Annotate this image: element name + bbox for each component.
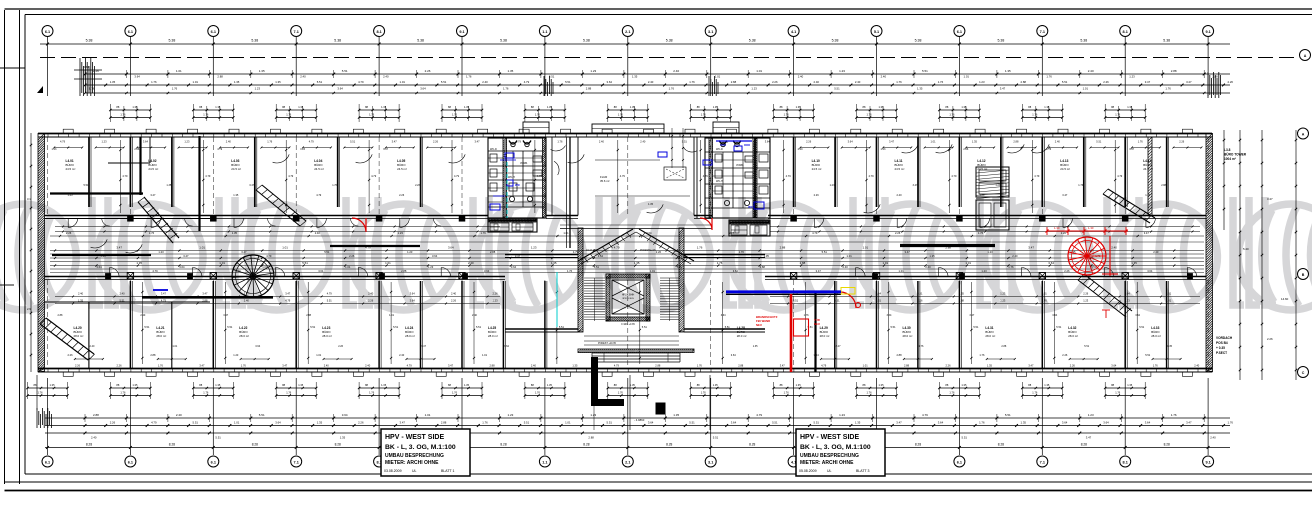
svg-text:03.08.2009: 03.08.2009 <box>384 469 402 473</box>
svg-text:8.1: 8.1 <box>1123 30 1128 34</box>
svg-text:1.76: 1.76 <box>286 113 292 117</box>
svg-text:1.35: 1.35 <box>961 383 967 387</box>
svg-text:1.01: 1.01 <box>650 269 656 273</box>
svg-text:2.40: 2.40 <box>482 80 488 84</box>
svg-text:MIETER: ARCHI OHNE: MIETER: ARCHI OHNE <box>385 460 439 466</box>
svg-text:1.76: 1.76 <box>120 391 126 395</box>
svg-text:4.79: 4.79 <box>288 174 294 178</box>
svg-text:5.38: 5.38 <box>915 39 922 43</box>
svg-text:28.0 m²: 28.0 m² <box>1068 334 1078 338</box>
entrance marker thick L <box>595 357 625 403</box>
svg-text:3.64: 3.64 <box>1062 420 1068 424</box>
svg-text:3.64: 3.64 <box>275 420 281 424</box>
svg-text:2.88: 2.88 <box>729 231 735 235</box>
column symbols lower corridor wall <box>127 273 1128 279</box>
svg-text:5.51: 5.51 <box>476 325 482 329</box>
svg-text:1.01: 1.01 <box>316 353 322 357</box>
svg-text:1.35: 1.35 <box>634 261 640 265</box>
svg-text:1.01: 1.01 <box>172 345 177 348</box>
svg-text:2.40: 2.40 <box>90 345 95 348</box>
svg-text:8.1: 8.1 <box>376 30 381 34</box>
red stem beside spiral <box>1102 236 1118 318</box>
sheet bottom edge double line <box>5 490 1312 492</box>
svg-text:1.76: 1.76 <box>1046 148 1051 151</box>
svg-text:2.88: 2.88 <box>780 246 786 250</box>
bottom wall pilasters <box>63 372 1192 376</box>
svg-text:1.35: 1.35 <box>796 105 802 109</box>
svg-text:+ 0.35: + 0.35 <box>1216 346 1225 350</box>
svg-text:1004 m²: 1004 m² <box>1224 157 1236 161</box>
svg-text:8.28: 8.28 <box>252 442 258 446</box>
svg-text:24.5 m²: 24.5 m² <box>895 167 905 171</box>
building outer wall bottom <box>38 369 1212 373</box>
svg-text:2.40: 2.40 <box>897 193 903 197</box>
svg-text:5.51: 5.51 <box>524 420 530 424</box>
central stair core side walls <box>578 228 684 332</box>
svg-text:5.51: 5.51 <box>973 325 979 329</box>
lower room band dimension chains <box>55 292 1200 305</box>
svg-text:2.40: 2.40 <box>814 80 820 84</box>
svg-text:5.38: 5.38 <box>1080 39 1087 43</box>
svg-text:1.01: 1.01 <box>863 246 869 250</box>
svg-text:WC: WC <box>748 205 754 209</box>
svg-text:3.64: 3.64 <box>83 65 89 69</box>
corridor wall lower <box>45 277 1207 280</box>
svg-text:5.51: 5.51 <box>891 325 897 329</box>
svg-text:1.23: 1.23 <box>68 193 74 197</box>
svg-text:UL: UL <box>827 469 832 473</box>
svg-text:1.76: 1.76 <box>949 391 955 395</box>
svg-text:3.47: 3.47 <box>223 314 228 317</box>
svg-text:5.51: 5.51 <box>1062 80 1068 84</box>
svg-text:1.76: 1.76 <box>1032 113 1038 117</box>
svg-text:1.35: 1.35 <box>298 105 304 109</box>
svg-text:1.35: 1.35 <box>961 105 967 109</box>
svg-text:2.88: 2.88 <box>401 269 407 273</box>
svg-text:3.64: 3.64 <box>1052 314 1057 317</box>
svg-text:2.88: 2.88 <box>1001 345 1006 348</box>
svg-text:1.01: 1.01 <box>965 261 971 265</box>
svg-text:BLATT 1: BLATT 1 <box>441 469 455 473</box>
svg-text:P.SECT: P.SECT <box>1216 351 1227 355</box>
svg-text:4.79: 4.79 <box>151 420 157 424</box>
svg-text:1.76: 1.76 <box>697 364 703 368</box>
svg-text:24.5 m²: 24.5 m² <box>397 167 407 171</box>
svg-text:4.79: 4.79 <box>786 174 792 178</box>
svg-text:5.51: 5.51 <box>682 140 688 144</box>
svg-text:5.51: 5.51 <box>227 325 233 329</box>
svg-text:4.79: 4.79 <box>614 246 620 250</box>
svg-text:5.51: 5.51 <box>350 140 356 144</box>
svg-text:3.64: 3.64 <box>511 265 517 269</box>
svg-text:1.76: 1.76 <box>618 391 624 395</box>
svg-text:1.76: 1.76 <box>120 113 126 117</box>
svg-text:3.47: 3.47 <box>202 292 208 296</box>
svg-text:2.40: 2.40 <box>599 140 605 144</box>
svg-text:28.0 m²: 28.0 m² <box>239 334 249 338</box>
east annotation text lower <box>1216 336 1233 355</box>
svg-text:2.40: 2.40 <box>78 292 84 296</box>
blue marks top centre <box>658 152 712 165</box>
svg-text:28.0 m²: 28.0 m² <box>405 334 415 338</box>
misc stems below building <box>37 375 710 430</box>
svg-text:2.40: 2.40 <box>925 265 931 269</box>
svg-text:3.47: 3.47 <box>1062 193 1068 197</box>
svg-text:5.1: 5.1 <box>874 30 879 34</box>
svg-text:35.6 m²: 35.6 m² <box>600 179 610 183</box>
svg-text:1.35: 1.35 <box>464 383 470 387</box>
west diagonal stair <box>256 185 306 226</box>
svg-text:2.88: 2.88 <box>760 265 766 269</box>
svg-text:3.64: 3.64 <box>410 292 416 296</box>
svg-text:3.47: 3.47 <box>1086 436 1092 440</box>
top-left dimension terminator cluster <box>74 58 102 96</box>
svg-text:1.23: 1.23 <box>751 87 757 91</box>
svg-text:7.1: 7.1 <box>1040 460 1045 464</box>
svg-text:2.40: 2.40 <box>1055 140 1061 144</box>
svg-text:3.47: 3.47 <box>1145 80 1151 84</box>
svg-text:7.1: 7.1 <box>294 30 299 34</box>
svg-text:5.38: 5.38 <box>1163 39 1170 43</box>
svg-text:3.64: 3.64 <box>484 269 490 273</box>
svg-text:3.47: 3.47 <box>896 420 902 424</box>
svg-text:1.76: 1.76 <box>203 391 209 395</box>
red escape route line <box>790 294 793 372</box>
svg-text:1.76: 1.76 <box>369 113 375 117</box>
svg-text:L3.8: L3.8 <box>1224 148 1231 152</box>
stair flight east treads <box>660 278 679 321</box>
svg-text:2.26: 2.26 <box>368 299 374 303</box>
svg-text:POS B4: POS B4 <box>1216 341 1228 345</box>
svg-text:1.01: 1.01 <box>715 75 721 79</box>
svg-text:6.1: 6.1 <box>211 30 216 34</box>
svg-text:BK - L, 3. OG, M.1:100: BK - L, 3. OG, M.1:100 <box>800 444 871 451</box>
svg-text:4.79: 4.79 <box>454 174 460 178</box>
svg-text:4.79: 4.79 <box>285 299 291 303</box>
svg-text:2.88: 2.88 <box>490 364 496 368</box>
svg-text:1.35: 1.35 <box>632 75 638 79</box>
svg-text:5.38: 5.38 <box>334 39 341 43</box>
svg-text:28.0 m²: 28.0 m² <box>488 334 498 338</box>
svg-text:1.76: 1.76 <box>919 345 924 348</box>
svg-text:1.35: 1.35 <box>340 436 346 440</box>
svg-text:1.23: 1.23 <box>881 148 886 151</box>
room vertical dimension stems upper <box>119 140 1123 213</box>
svg-text:3.47: 3.47 <box>905 250 911 254</box>
svg-text:2.26: 2.26 <box>963 148 968 151</box>
blue fixtures west wc <box>490 153 521 210</box>
svg-text:2.40: 2.40 <box>1012 254 1018 258</box>
upper room partition walls <box>89 137 1169 207</box>
svg-text:2.40: 2.40 <box>176 413 182 417</box>
svg-text:1.76: 1.76 <box>979 353 985 357</box>
svg-text:2.88: 2.88 <box>897 353 903 357</box>
svg-text:2.40: 2.40 <box>881 75 887 79</box>
svg-text:2.26: 2.26 <box>117 364 123 368</box>
svg-text:2.40: 2.40 <box>673 69 679 73</box>
svg-text:5.51: 5.51 <box>565 80 571 84</box>
svg-text:24.5 m²: 24.5 m² <box>231 167 241 171</box>
svg-text:1.23: 1.23 <box>102 140 108 144</box>
svg-text:B: B <box>1302 273 1305 277</box>
svg-text:2.88: 2.88 <box>1021 80 1027 84</box>
svg-text:3.47: 3.47 <box>241 250 247 254</box>
svg-text:3.64: 3.64 <box>143 140 149 144</box>
svg-text:1.76: 1.76 <box>1008 265 1014 269</box>
svg-text:28.0 m²: 28.0 m² <box>74 334 84 338</box>
blue mark west corridor <box>153 289 168 291</box>
svg-text:1.35: 1.35 <box>1127 383 1133 387</box>
svg-text:5.51: 5.51 <box>327 299 333 303</box>
svg-text:C: C <box>1302 371 1305 375</box>
svg-text:1.35: 1.35 <box>136 261 142 265</box>
svg-text:2.88: 2.88 <box>800 261 806 265</box>
svg-text:1.1: 1.1 <box>542 460 547 464</box>
svg-text:2.88: 2.88 <box>655 364 661 368</box>
svg-text:1.35: 1.35 <box>464 105 470 109</box>
svg-text:1.23: 1.23 <box>531 246 537 250</box>
svg-text:1.35: 1.35 <box>298 383 304 387</box>
west core dark plant room <box>488 218 537 232</box>
svg-text:2.26: 2.26 <box>433 140 439 144</box>
svg-text:1.76: 1.76 <box>482 420 488 424</box>
svg-text:3.47: 3.47 <box>1267 197 1273 201</box>
svg-text:3.47: 3.47 <box>889 140 895 144</box>
svg-text:2.88: 2.88 <box>1013 140 1019 144</box>
top grid axis stems <box>48 37 1209 97</box>
svg-text:24.5 m²: 24.5 m² <box>314 167 324 171</box>
svg-text:2.26: 2.26 <box>110 420 116 424</box>
roof shaft boxes above top wall <box>523 122 739 133</box>
cyan service line centre <box>556 272 558 327</box>
svg-text:5.51: 5.51 <box>317 80 323 84</box>
svg-text:3.64: 3.64 <box>134 75 140 79</box>
svg-text:1.23: 1.23 <box>995 184 1000 187</box>
svg-text:5.51: 5.51 <box>834 87 840 91</box>
svg-text:4.79: 4.79 <box>922 413 928 417</box>
svg-text:1.76: 1.76 <box>452 391 458 395</box>
svg-text:1.76: 1.76 <box>701 391 707 395</box>
west inner diagonal stair <box>138 197 179 243</box>
red dimension chain above spiral <box>1046 226 1129 235</box>
svg-text:BÜRO TOWER: BÜRO TOWER <box>1224 152 1247 157</box>
svg-text:2.26: 2.26 <box>1179 140 1185 144</box>
svg-text:PODEST +10.35: PODEST +10.35 <box>598 342 616 345</box>
svg-text:2.88: 2.88 <box>1161 184 1166 187</box>
svg-text:7.1: 7.1 <box>294 460 299 464</box>
svg-text:1.35: 1.35 <box>572 364 578 368</box>
svg-text:6.1: 6.1 <box>957 30 962 34</box>
svg-text:2.26: 2.26 <box>349 254 355 258</box>
svg-text:4.79: 4.79 <box>407 364 413 368</box>
svg-text:1.35: 1.35 <box>713 383 719 387</box>
svg-text:1.35: 1.35 <box>1167 345 1172 348</box>
southwest diagonal stair <box>40 318 95 360</box>
svg-text:28.0 m²: 28.0 m² <box>322 334 332 338</box>
upper room band dimension chains <box>55 226 1200 233</box>
svg-text:2.88: 2.88 <box>217 75 223 79</box>
svg-text:3.64: 3.64 <box>420 87 426 91</box>
svg-text:6.1: 6.1 <box>45 460 50 464</box>
svg-text:1.35: 1.35 <box>753 345 758 348</box>
west heavy corridor wall segment <box>142 296 273 299</box>
svg-text:4.79: 4.79 <box>756 413 762 417</box>
svg-text:WC-D: WC-D <box>490 148 497 151</box>
svg-text:1.35: 1.35 <box>547 383 553 387</box>
svg-text:3.64: 3.64 <box>179 265 185 269</box>
svg-text:1.35: 1.35 <box>713 105 719 109</box>
svg-text:2.88: 2.88 <box>588 436 594 440</box>
top centre hall details <box>578 128 694 216</box>
svg-text:1.76: 1.76 <box>701 113 707 117</box>
svg-text:2.88: 2.88 <box>731 80 737 84</box>
svg-text:1.01: 1.01 <box>345 265 351 269</box>
svg-text:2.40: 2.40 <box>451 292 457 296</box>
svg-text:VORDACH: VORDACH <box>1216 336 1233 340</box>
svg-text:4.79: 4.79 <box>1034 174 1040 178</box>
svg-text:1.35: 1.35 <box>551 261 557 265</box>
svg-text:4.79: 4.79 <box>951 174 957 178</box>
svg-text:3.1: 3.1 <box>708 460 713 464</box>
svg-text:5.38: 5.38 <box>832 39 839 43</box>
central core bottom wall <box>578 349 694 353</box>
svg-text:3.64: 3.64 <box>255 345 260 348</box>
top dimension chain 2 <box>84 69 1230 79</box>
svg-text:2.88: 2.88 <box>58 314 63 317</box>
svg-text:5.51: 5.51 <box>215 436 221 440</box>
svg-text:BK - L, 3. OG, M.1:100: BK - L, 3. OG, M.1:100 <box>385 444 456 451</box>
svg-text:1.23: 1.23 <box>407 250 413 254</box>
svg-text:5.51: 5.51 <box>302 261 308 265</box>
svg-text:3.47: 3.47 <box>816 269 822 273</box>
entrance steps below core <box>592 353 680 362</box>
svg-text:2.40: 2.40 <box>798 75 804 79</box>
svg-text:4.79: 4.79 <box>358 80 364 84</box>
bottom grid stems <box>48 378 1209 455</box>
svg-text:1.23: 1.23 <box>1000 299 1006 303</box>
svg-text:1.01: 1.01 <box>863 364 869 368</box>
svg-text:VORR.: VORR. <box>736 164 744 167</box>
svg-text:1.35: 1.35 <box>987 364 993 368</box>
svg-text:4.79: 4.79 <box>60 140 66 144</box>
svg-text:2.40: 2.40 <box>640 140 646 144</box>
svg-text:1.23: 1.23 <box>300 148 305 151</box>
svg-text:3.64: 3.64 <box>96 265 102 269</box>
svg-text:5.51: 5.51 <box>1084 345 1089 348</box>
svg-text:1.35: 1.35 <box>1005 69 1011 73</box>
svg-text:2.88: 2.88 <box>490 250 496 254</box>
svg-text:3.64: 3.64 <box>598 254 604 258</box>
svg-text:2.40: 2.40 <box>472 314 477 317</box>
svg-text:1.35: 1.35 <box>1021 420 1027 424</box>
svg-text:1.76: 1.76 <box>557 140 563 144</box>
svg-text:1.01: 1.01 <box>482 353 488 357</box>
svg-text:2.26: 2.26 <box>656 250 662 254</box>
svg-text:3.64: 3.64 <box>1147 269 1153 273</box>
west interior vertical chain <box>27 133 32 372</box>
svg-text:3.64: 3.64 <box>848 140 854 144</box>
svg-text:NEU: NEU <box>756 323 762 327</box>
svg-text:28.0 m²: 28.0 m² <box>985 334 995 338</box>
sheet bottom margin line <box>5 481 1312 483</box>
svg-text:1.01: 1.01 <box>385 261 391 265</box>
svg-text:2.88: 2.88 <box>904 364 910 368</box>
svg-text:24.5 m²: 24.5 m² <box>812 167 822 171</box>
svg-text:8.28: 8.28 <box>1081 442 1087 446</box>
svg-text:UMBAU BESPRECHUNG: UMBAU BESPRECHUNG <box>385 453 444 459</box>
svg-text:3.47: 3.47 <box>448 364 454 368</box>
svg-text:1.35: 1.35 <box>166 184 171 187</box>
window dim mini chains inside top rooms <box>53 147 1202 149</box>
svg-text:1.35: 1.35 <box>1127 105 1133 109</box>
svg-text:24.5 m²: 24.5 m² <box>66 167 76 171</box>
svg-text:6.1: 6.1 <box>957 460 962 464</box>
svg-text:3.47: 3.47 <box>969 314 974 317</box>
svg-text:2.26: 2.26 <box>806 140 812 144</box>
svg-text:1.76: 1.76 <box>784 391 790 395</box>
svg-text:1.01: 1.01 <box>199 246 205 250</box>
svg-text:1.76: 1.76 <box>1115 391 1121 395</box>
svg-text:2.88: 2.88 <box>93 413 99 417</box>
svg-text:4.79: 4.79 <box>122 174 128 178</box>
svg-text:9P/F 6.3KN: 9P/F 6.3KN <box>622 298 634 300</box>
inner frame bottom <box>25 473 1312 475</box>
fold mark left upper <box>0 67 25 69</box>
svg-text:2.26: 2.26 <box>451 299 457 303</box>
svg-text:5.51: 5.51 <box>1005 413 1011 417</box>
svg-text:5.51: 5.51 <box>259 413 265 417</box>
room vertical dimension stems lower <box>141 282 1145 364</box>
svg-text:9.1: 9.1 <box>1205 30 1210 34</box>
svg-text:1.35: 1.35 <box>215 105 221 109</box>
svg-text:3.64: 3.64 <box>1135 314 1140 317</box>
svg-text:1.76: 1.76 <box>38 391 44 395</box>
svg-text:05.08.2009: 05.08.2009 <box>799 469 817 473</box>
svg-text:1.76: 1.76 <box>503 87 509 91</box>
svg-text:5.51: 5.51 <box>607 420 613 424</box>
red detail box <box>794 319 809 336</box>
svg-text:3.47: 3.47 <box>913 184 918 187</box>
svg-text:6.1: 6.1 <box>211 460 216 464</box>
top grid axis bubbles <box>42 26 1214 37</box>
svg-text:1.76: 1.76 <box>535 391 541 395</box>
svg-text:1.35: 1.35 <box>917 87 923 91</box>
svg-text:2.88: 2.88 <box>150 353 156 357</box>
svg-text:1.76: 1.76 <box>1032 391 1038 395</box>
room internal door arcs <box>91 144 1050 253</box>
svg-text:3.47: 3.47 <box>282 364 288 368</box>
svg-text:1.30: 1.30 <box>1088 226 1094 230</box>
spiral stair west <box>232 255 274 297</box>
building outer wall top <box>38 134 1212 138</box>
svg-text:1.23: 1.23 <box>158 250 164 254</box>
svg-text:1.01: 1.01 <box>883 261 889 265</box>
svg-text:5.51: 5.51 <box>1096 140 1102 144</box>
svg-text:1.01: 1.01 <box>425 413 431 417</box>
svg-text:1.01: 1.01 <box>756 69 762 73</box>
svg-text:A: A <box>1302 132 1305 136</box>
corridor lower secondary chain <box>50 272 1204 274</box>
svg-text:1.76: 1.76 <box>241 364 247 368</box>
room text labels upper band <box>52 148 1167 197</box>
svg-text:5.38: 5.38 <box>500 39 507 43</box>
svg-text:2.26: 2.26 <box>134 148 139 151</box>
svg-text:2.9: 2.9 <box>27 307 31 311</box>
svg-text:1.76: 1.76 <box>1138 140 1144 144</box>
top mid terminator cluster <box>544 76 553 96</box>
svg-text:4.79: 4.79 <box>869 174 875 178</box>
svg-text:1.35: 1.35 <box>110 80 116 84</box>
